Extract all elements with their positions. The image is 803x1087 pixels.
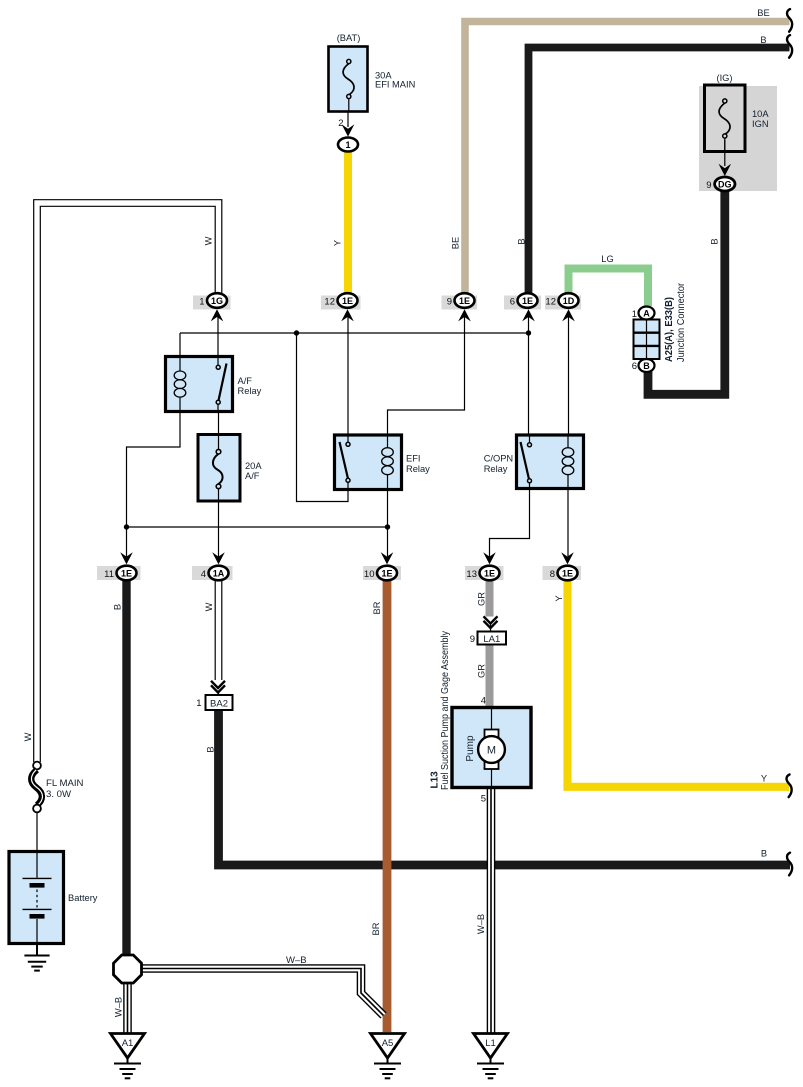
wire W-B from ground junction to A1: [123, 978, 132, 1033]
svg-text:A5: A5: [382, 1038, 394, 1049]
svg-text:12: 12: [324, 297, 335, 308]
wire GR from 13 1E to LA1: [486, 581, 494, 617]
wire 6 1E to C/OPN switch: [528, 316, 530, 435]
wire B from BA2 to right edge: [219, 709, 791, 865]
wire B from DG to junction connector B: [648, 189, 725, 394]
wire BA2 stub: [218, 693, 220, 695]
connector oval 12 1E: [338, 293, 358, 308]
svg-text:Junction Connector: Junction Connector: [676, 282, 687, 362]
svg-text:Relay: Relay: [406, 464, 430, 474]
svg-text:1E: 1E: [484, 568, 495, 578]
connector oval B: [639, 359, 655, 372]
arrow into DG: [719, 164, 732, 176]
svg-text:L1: L1: [485, 1038, 496, 1049]
svg-text:1G: 1G: [211, 296, 223, 306]
thin wires: [37, 99, 725, 852]
svg-text:1E: 1E: [342, 296, 353, 306]
svg-text:Y: Y: [333, 240, 343, 246]
fuse 30A EFI MAIN: [329, 47, 368, 112]
connector 12 1D label background: [545, 296, 581, 310]
svg-text:A/F: A/F: [238, 376, 253, 386]
svg-text:1E: 1E: [459, 296, 470, 306]
svg-text:9: 9: [706, 180, 711, 191]
svg-text:1E: 1E: [562, 568, 573, 578]
svg-text:10: 10: [364, 569, 375, 580]
svg-text:BA2: BA2: [210, 698, 228, 709]
svg-text:9: 9: [470, 634, 475, 645]
svg-text:L13: L13: [430, 771, 441, 789]
connector oval 1 (fuse output): [338, 138, 358, 152]
svg-text:A25(A), E33(B): A25(A), E33(B): [664, 297, 675, 362]
node junction y527 right: [385, 524, 390, 529]
svg-text:20A: 20A: [245, 461, 262, 471]
svg-text:BR: BR: [371, 922, 381, 935]
relay A/F: [166, 357, 233, 412]
connector 1G label background: [193, 296, 231, 310]
svg-text:M: M: [487, 745, 496, 757]
connector oval 8 1E: [558, 566, 578, 581]
arrow into 1G: [211, 309, 224, 321]
svg-text:GR: GR: [477, 592, 487, 606]
svg-text:EFI: EFI: [406, 454, 420, 464]
connector oval 6 1E: [518, 293, 538, 308]
wire EFI switch bottom return: [297, 333, 349, 502]
svg-text:GR: GR: [477, 664, 487, 678]
svg-text:W: W: [204, 236, 214, 245]
wire LA1 stub: [490, 624, 492, 633]
svg-text:(BAT): (BAT): [337, 33, 361, 43]
svg-text:FL MAIN: FL MAIN: [46, 778, 84, 789]
svg-text:2: 2: [338, 118, 343, 129]
svg-text:B: B: [517, 238, 527, 244]
wire LG junction connector: [569, 269, 649, 307]
wire W-B from ground junction to A5: [140, 969, 384, 1016]
wire horizontal bus y527: [127, 526, 388, 528]
svg-text:(IG): (IG): [716, 73, 732, 83]
wire GR from LA1 to pump: [486, 645, 494, 709]
svg-text:BE: BE: [451, 237, 461, 249]
svg-text:B: B: [206, 746, 216, 752]
fusible link FL MAIN: [31, 762, 42, 813]
svg-text:Relay: Relay: [484, 464, 508, 474]
svg-text:1: 1: [199, 297, 204, 308]
ground battery: [24, 944, 49, 971]
battery: [9, 852, 64, 944]
svg-text:Fuel Suction Pump and Gage Ass: Fuel Suction Pump and Gage Assembly: [440, 631, 451, 790]
connector oval 13 1E: [480, 566, 500, 581]
arrow into 9 1E: [458, 309, 471, 321]
relay EFI: [335, 435, 402, 490]
svg-text:Relay: Relay: [238, 386, 262, 396]
svg-text:Pump: Pump: [465, 735, 476, 762]
node junction y333 right: [526, 330, 531, 335]
ground junction octagon: [114, 955, 142, 983]
wire W-B from pump to L1: [487, 788, 496, 1033]
svg-text:1E: 1E: [381, 568, 392, 578]
svg-text:BR: BR: [372, 601, 382, 614]
wire A/F relay coil top: [179, 333, 181, 357]
wire EFI coil top to 9 1E: [388, 316, 465, 435]
svg-text:6: 6: [510, 297, 515, 308]
node junction y333 left: [294, 330, 299, 335]
arrow into 12 1D: [562, 309, 575, 321]
svg-text:6: 6: [632, 361, 637, 372]
junction dots: [124, 330, 531, 529]
connector oval 1G: [207, 293, 227, 308]
svg-text:A1: A1: [122, 1038, 134, 1049]
svg-text:B: B: [113, 604, 123, 610]
connector oval A: [639, 307, 655, 320]
ground triangle L1: [474, 1034, 508, 1059]
svg-text:W–B: W–B: [114, 997, 124, 1017]
wire 20A fuse to 4 1A: [218, 501, 220, 557]
rotated component names: [430, 282, 688, 790]
wire 12 1D to C/OPN coil: [568, 316, 570, 435]
wire A/F coil bottom to 11 1E: [127, 412, 181, 557]
connector 13 1E label background: [465, 566, 504, 580]
oval labels: [121, 140, 732, 579]
svg-text:Battery: Battery: [68, 893, 98, 903]
connector oval 9 1E: [455, 293, 475, 308]
arrow into 13 1E: [483, 552, 496, 564]
svg-text:A/F: A/F: [245, 471, 260, 481]
svg-text:3. 0W: 3. 0W: [46, 789, 72, 800]
svg-text:B: B: [643, 361, 650, 371]
continuation squiggle B bottom: [787, 853, 792, 876]
connector BA2: [206, 695, 233, 710]
wire W from battery to 1G: [37, 203, 219, 762]
svg-text:1: 1: [345, 140, 350, 150]
connector 6 1E label background: [504, 296, 541, 310]
svg-text:1: 1: [196, 698, 201, 709]
wire B (black) top: [529, 48, 790, 295]
connector 11 1E label background: [97, 566, 141, 580]
wire EFI MAIN fuse to arrow: [347, 99, 349, 127]
connector oval 10 1E: [377, 566, 397, 581]
svg-text:W–B: W–B: [286, 955, 307, 966]
continuation squiggle BE: [787, 9, 792, 32]
svg-text:1E: 1E: [121, 568, 132, 578]
ground A1: [114, 1058, 141, 1078]
wire BR from 10 1E to A5: [383, 581, 392, 1032]
connector 8 1E label background: [543, 566, 582, 580]
wire IGN fuse to arrow: [724, 140, 726, 166]
arrow into 12 1E: [341, 309, 354, 321]
svg-text:9: 9: [447, 297, 452, 308]
arrow into 10 1E: [381, 552, 394, 564]
junction connector A25(A) E33(B): [634, 320, 660, 360]
connector 4 1A label background: [192, 566, 233, 580]
svg-text:DG: DG: [718, 179, 732, 189]
svg-text:13: 13: [466, 569, 477, 580]
ground A5: [374, 1058, 401, 1078]
connector LA1: [478, 632, 507, 645]
svg-text:A: A: [643, 308, 650, 318]
fuse 10A IGN: [705, 85, 746, 152]
arrow into 8 1E: [561, 552, 574, 564]
continuation squiggle Y: [787, 775, 792, 798]
svg-text:W–B: W–B: [476, 914, 486, 934]
wire C/OPN coil bottom to 8 1E: [567, 489, 569, 557]
svg-text:12: 12: [545, 297, 556, 308]
fuse 20A A/F: [198, 435, 240, 502]
connector 9 1E label background: [442, 296, 478, 310]
relay C/OPN: [517, 435, 584, 489]
rotated wire labels: [23, 236, 720, 1017]
arrow into 11 1E: [120, 552, 133, 564]
arrow into 6 1E: [522, 309, 535, 321]
svg-text:1: 1: [632, 309, 637, 320]
svg-text:B: B: [710, 238, 720, 244]
svg-text:B: B: [761, 849, 767, 859]
pump assembly L13: [452, 708, 531, 788]
wire W from 4 1A to BA2: [215, 581, 223, 680]
wire B from 11 1E to ground junction: [122, 581, 130, 956]
svg-text:1D: 1D: [563, 296, 575, 306]
connector oval 11 1E: [117, 566, 137, 581]
svg-text:B: B: [760, 35, 766, 45]
svg-text:W: W: [204, 602, 214, 611]
svg-text:LA1: LA1: [483, 634, 500, 645]
wire 12 1E to EFI switch: [347, 316, 349, 435]
wire EFI coil bottom to 10 1E: [387, 490, 389, 557]
svg-text:10A: 10A: [752, 109, 769, 119]
svg-text:4: 4: [481, 696, 486, 707]
ground triangle A1: [111, 1034, 145, 1059]
svg-text:IGN: IGN: [752, 119, 769, 129]
node junction y527 left: [124, 524, 129, 529]
svg-text:C/OPN: C/OPN: [484, 454, 513, 464]
IG fuse gray panel: [699, 86, 777, 191]
box labels: [122, 634, 501, 1049]
wire horizontal bus y333: [180, 332, 529, 334]
wire Y from 8 1E to right edge: [568, 581, 790, 787]
connector oval 12 1D: [559, 293, 579, 308]
svg-text:W: W: [23, 732, 33, 741]
svg-text:Y: Y: [554, 595, 564, 601]
svg-text:5: 5: [481, 794, 486, 805]
svg-text:Y: Y: [761, 774, 767, 784]
wire BE (beige) top: [465, 22, 790, 295]
svg-text:11: 11: [104, 569, 114, 580]
arrow into 4 1A: [212, 552, 225, 564]
connector oval 4 1A: [209, 566, 229, 581]
svg-text:1E: 1E: [522, 296, 533, 306]
wire C/OPN switch bottom to 13 1E: [490, 489, 530, 557]
chevron arrows LA1: [484, 616, 498, 628]
svg-text:BE: BE: [757, 8, 769, 18]
svg-text:EFI MAIN: EFI MAIN: [375, 80, 415, 90]
connector 10 1E label background: [363, 566, 401, 580]
svg-text:1A: 1A: [213, 568, 225, 578]
connector 12 1E label background: [321, 296, 361, 310]
wire Y from EFI MAIN fuse to 1E: [344, 152, 352, 294]
continuation squiggle B top: [787, 35, 792, 58]
motor M: [478, 736, 505, 763]
connector oval DG: [715, 177, 735, 191]
svg-text:8: 8: [550, 569, 555, 580]
svg-text:LG: LG: [601, 254, 613, 264]
ground triangle A5: [371, 1034, 405, 1059]
chevron arrows BA2: [211, 681, 225, 693]
svg-text:4: 4: [201, 569, 206, 580]
ground L1: [477, 1058, 504, 1078]
wire A/F switch to 20A fuse: [218, 412, 220, 435]
wire 1G to A/F relay switch: [217, 316, 219, 357]
arrow into oval 1: [342, 124, 355, 136]
wire FL MAIN to battery: [36, 812, 38, 852]
